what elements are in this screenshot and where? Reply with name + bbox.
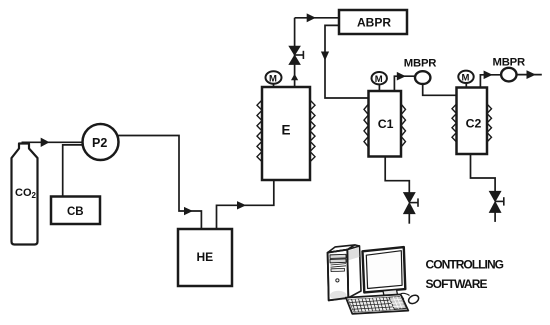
svg-text:M: M [375,74,383,85]
wire: C1 top to MBPR1 [394,72,415,91]
pump P2 [83,124,119,160]
svg-text:M: M [269,73,277,84]
regulator MBPR2 [501,68,516,82]
svg-text:ABPR: ABPR [357,16,391,30]
wire: MBPR2 outlet [516,70,542,79]
monitor stand neck [383,290,398,298]
wire: ABPR to C1 [321,25,369,98]
power button [336,279,339,282]
wire: cylinder to pump P2 [22,138,85,147]
svg-text:M: M [462,73,470,84]
wire: pump P2 to CB [63,145,84,197]
coil left of C2 [452,104,457,142]
svg-text:CONTROLLING: CONTROLLING [426,258,504,272]
CO2 cylinder [12,144,38,245]
box CB [51,197,100,225]
svg-text:SOFTWARE: SOFTWARE [426,277,488,291]
wire: MBPR1 to C2 [423,85,457,95]
motor M on E [266,71,282,87]
heat exchanger HE [178,229,232,286]
valve V1 [289,46,303,64]
computer (controlling PC) [328,245,420,314]
wire: E top to ABPR via valve [291,13,339,87]
numpad block [389,296,407,309]
tower front face [328,250,349,301]
coil right of C1 [401,104,406,147]
mouse [407,294,420,306]
tower side face [347,246,361,298]
svg-text:HE: HE [197,250,214,264]
wire: HE to column E [217,181,274,229]
wire: C2 bottom drain [471,154,496,191]
column C1 (separator) [369,91,402,157]
coil right of C2 [487,104,492,142]
back pressure regulator ABPR [339,10,407,34]
motor M on C1 [372,72,387,91]
svg-text:C2: C2 [466,117,482,131]
column E (extractor) [262,87,310,180]
keys [347,296,406,312]
front lower shading [330,291,347,301]
heating coil left of E [257,100,262,162]
button bar [331,268,345,271]
wire: C1 bottom drain [385,157,409,194]
mouse cable [401,293,410,295]
drive bay 1 [330,254,346,258]
motor M on C2 [458,71,473,88]
svg-text:P2: P2 [92,136,107,150]
svg-text:MBPR: MBPR [404,57,437,69]
valve V3 [490,191,504,222]
monitor screen [366,251,402,289]
monitor stand base [380,296,404,301]
svg-text:CB: CB [67,206,84,218]
vent lines [331,264,347,265]
drive bay 2 [330,259,346,263]
monitor frame [363,247,406,292]
keyboard [346,294,408,313]
heating coil right of E [310,100,315,162]
coil left of C1 [364,104,369,147]
regulator MBPR1 [415,71,430,84]
wire: C2 top to MBPR2 [480,71,501,88]
svg-text:MBPR: MBPR [493,56,526,68]
svg-text:E: E [282,123,291,138]
column C2 (separator) [457,88,488,155]
svg-text:C1: C1 [378,117,394,131]
valve V2 [404,193,418,224]
tower top face [328,245,355,253]
wire: pump P2 to HE [119,136,202,229]
